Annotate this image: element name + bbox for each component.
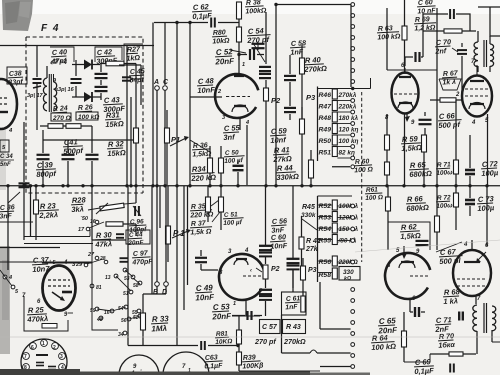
svg-text:10kΩ: 10kΩ	[212, 38, 230, 46]
svg-text:B: B	[153, 289, 158, 296]
wire vert x177	[175, 21, 178, 185]
svg-text:R53: R53	[319, 215, 332, 222]
wire C49	[201, 250, 218, 270]
svg-text:0,1µF: 0,1µF	[414, 366, 434, 375]
resistor R67 body	[440, 98, 456, 102]
label R28	[71, 195, 88, 214]
svg-text:R51: R51	[319, 150, 332, 157]
wire ladder top	[318, 78, 371, 90]
scan faint line bottom	[0, 336, 500, 338]
tube V1 grid stem	[234, 55, 244, 77]
label R56	[319, 259, 358, 266]
label R34	[190, 164, 217, 183]
svg-text:C 57: C 57	[262, 324, 278, 331]
svg-text:220kλ: 220kλ	[338, 103, 357, 111]
capacitor C60b plates	[287, 186, 300, 288]
terminal R49	[337, 133, 354, 137]
resistor lower mid a	[206, 186, 211, 222]
wire R27	[100, 64, 136, 76]
output transformer T2 left winding	[473, 305, 477, 331]
tube V0 envelope	[0, 79, 17, 129]
svg-text:680kΩ: 680kΩ	[409, 169, 432, 179]
label R62	[400, 222, 422, 241]
label C50	[224, 149, 245, 165]
svg-text:R47: R47	[319, 104, 333, 111]
label R32	[107, 139, 126, 158]
capacitor C62 plates	[188, 18, 215, 28]
capacitor C41b plates	[86, 155, 99, 159]
wire terminal rail top	[350, 5, 352, 88]
resistor R66 body	[435, 186, 440, 250]
capacitor C69 plates	[450, 364, 454, 373]
wire coil top	[47, 66, 54, 82]
capacitor stack x265 lower	[259, 290, 272, 316]
wire vert x190 lower	[187, 186, 189, 285]
svg-text:100µ: 100µ	[477, 203, 495, 213]
wire R81	[238, 316, 240, 352]
label C49	[195, 283, 216, 303]
terminal R56	[337, 260, 354, 264]
wire C57 bus	[232, 315, 262, 317]
label C61	[282, 292, 307, 315]
svg-text:1: 1	[242, 62, 245, 68]
label C43	[103, 95, 126, 114]
label 3p 17	[27, 93, 44, 99]
output transformer T1 left winding	[474, 42, 478, 67]
svg-text:3kλ: 3kλ	[71, 204, 84, 214]
terminal R50	[337, 145, 354, 149]
dashed alignment box F4	[26, 37, 143, 193]
label 9	[53, 78, 57, 84]
label R41	[272, 145, 292, 164]
svg-text:82 kη: 82 kη	[339, 150, 355, 157]
tube V4 anode bar	[62, 291, 72, 294]
svg-text:R46: R46	[319, 92, 332, 99]
label R72	[436, 194, 454, 210]
capacitor C50 plates	[233, 166, 244, 170]
tube V6 grid bar	[470, 80, 484, 82]
svg-text:4: 4	[8, 275, 12, 281]
terminal R54	[337, 227, 354, 231]
tube V0 grid dashes	[0, 98, 8, 104]
resistor R55 body	[332, 235, 337, 245]
svg-text:1: 1	[233, 301, 236, 307]
wire bottom mid2	[320, 282, 351, 329]
resistor body F4 lower a	[48, 124, 63, 129]
svg-text:500 pf: 500 pf	[438, 120, 462, 130]
tube V8 arrow	[476, 252, 486, 263]
wire lower F4	[40, 126, 92, 140]
svg-text:27k: 27k	[305, 246, 319, 253]
svg-text:C 55: C 55	[224, 123, 241, 133]
label C55	[223, 123, 242, 142]
wire C50	[237, 160, 239, 185]
capacitor C36 plates	[8, 183, 30, 203]
tube V1 grid dash	[226, 96, 250, 98]
label R58 box	[339, 267, 360, 283]
potentiometer P2 lower	[263, 265, 268, 288]
svg-text:R 43: R 43	[286, 324, 301, 331]
capacitor C38 plates	[33, 79, 42, 88]
tube V7 dash	[410, 275, 428, 277]
wire y262 left	[0, 261, 92, 263]
resistor R65 body	[422, 135, 427, 185]
svg-text:2: 2	[217, 89, 221, 95]
svg-text:R 33: R 33	[152, 314, 170, 324]
wire vert x131	[130, 97, 132, 185]
svg-text:15kΩ: 15kΩ	[107, 148, 126, 158]
wire R70	[430, 353, 476, 355]
svg-text:C 53: C 53	[213, 302, 231, 312]
wire V0 cathode down	[24, 122, 31, 240]
resistor R36 body	[208, 146, 213, 185]
resistor R81 body	[237, 330, 242, 344]
tube V8 pins	[463, 242, 489, 302]
tube V4 grid dashes	[48, 280, 70, 286]
label R36	[192, 142, 212, 159]
IF transformer F4 left winding	[43, 78, 47, 111]
svg-text:P2: P2	[271, 266, 280, 273]
label R49	[319, 127, 359, 134]
label R68	[443, 287, 462, 306]
wire C45	[119, 65, 141, 105]
svg-text:1Mλ: 1Mλ	[151, 324, 167, 334]
junctions bus left	[41, 184, 93, 187]
wire R37 diag	[211, 200, 220, 222]
svg-text:20nF: 20nF	[211, 312, 232, 322]
wire ground bus	[0, 185, 500, 187]
wire vert x127	[126, 45, 128, 185]
svg-text:81: 81	[96, 285, 102, 291]
svg-text:´50: ´50	[80, 216, 88, 222]
wire x293 to C61	[292, 270, 294, 292]
svg-text:1бкα: 1бкα	[438, 340, 456, 350]
svg-text:A: A	[153, 79, 159, 86]
svg-text:270kΩ: 270kΩ	[283, 337, 306, 346]
junctions right bus	[385, 184, 488, 187]
junction x276	[264, 184, 277, 187]
output transformer T1 core	[484, 40, 487, 67]
capacitor C40 plates	[71, 79, 82, 83]
svg-text:7: 7	[24, 354, 27, 360]
terminal A	[153, 79, 159, 90]
output transformer T2 right winding	[492, 306, 496, 331]
label R67	[439, 70, 461, 90]
terminal column bottom	[351, 288, 355, 369]
wire C53	[232, 300, 260, 316]
label P1	[173, 229, 185, 238]
label C63	[204, 354, 224, 370]
wire V8 top	[472, 186, 487, 304]
capacitor C39 plates	[37, 155, 50, 159]
terminal column top	[351, 3, 355, 84]
capacitor C43b plates	[95, 87, 108, 91]
svg-text:120 kη: 120 kη	[339, 127, 359, 134]
svg-text:2: 2	[53, 345, 56, 351]
resistor R23 body	[34, 186, 39, 240]
label C39	[36, 160, 58, 179]
terminal R51	[337, 156, 354, 160]
svg-text:56: 56	[121, 318, 127, 324]
capacitor C71 plates	[459, 312, 463, 321]
label F4 box	[41, 23, 60, 34]
scan grey band left edge	[0, 246, 10, 354]
wire T1 bottom	[478, 66, 490, 72]
svg-text:100 kΩ: 100 kΩ	[377, 33, 401, 41]
label R24	[51, 105, 71, 122]
label C69	[414, 357, 435, 375]
wire vert x153	[152, 45, 154, 185]
label C58	[290, 38, 307, 57]
label R54	[319, 225, 359, 233]
wire C67 diag	[436, 242, 462, 252]
label C45	[129, 68, 146, 84]
svg-text:10nF: 10nF	[197, 85, 215, 95]
wire C43 stack	[100, 64, 102, 100]
tube V4 arrow	[52, 292, 65, 301]
wire main top bus	[0, 45, 154, 47]
label C96	[129, 218, 148, 234]
label P2 upper	[271, 96, 281, 105]
wire C56 col	[265, 186, 267, 264]
label C48	[197, 76, 216, 95]
switch contacts 27 28 29	[75, 252, 108, 268]
wire BD below	[143, 287, 166, 301]
wire R67	[430, 92, 488, 186]
wire R62 frame	[388, 222, 430, 250]
capacitor mid plates	[416, 241, 429, 245]
tube V6 anode	[469, 103, 485, 109]
svg-text:16: 16	[90, 219, 96, 225]
svg-text:≥3p| 16: ≥3p| 16	[55, 87, 75, 93]
diode D2	[72, 92, 101, 102]
tube socket S2 pins	[130, 364, 142, 375]
tube V1 envelope	[215, 74, 258, 118]
terminal R46	[337, 99, 354, 103]
terminal R47	[337, 110, 354, 114]
wire x8 lower	[7, 186, 9, 270]
label R25	[26, 305, 49, 324]
svg-text:180 kλ: 180 kλ	[339, 114, 359, 122]
resistor R51 body	[332, 147, 337, 157]
wire vert x177 lower	[175, 184, 178, 345]
capacitor C97 plates	[120, 258, 129, 262]
tube V6 pins	[471, 118, 489, 126]
label P1 upper	[170, 135, 189, 146]
tube socket S3 circle	[163, 352, 209, 375]
label R26	[76, 104, 99, 121]
wire C72	[469, 160, 471, 185]
label R63	[377, 25, 401, 42]
svg-text:C 52: C 52	[216, 47, 234, 57]
potentiometer R28 body	[88, 203, 136, 211]
wire lower-left vert	[92, 186, 160, 294]
capacitor stack P2b	[259, 74, 271, 78]
capacitor C41a plates	[62, 155, 75, 159]
svg-text:270 Ω: 270 Ω	[52, 115, 71, 122]
tube V0 anode bar	[0, 111, 8, 113]
label R27	[124, 44, 143, 63]
svg-text:R58: R58	[319, 272, 332, 279]
label C70	[434, 37, 452, 56]
potentiometer P1 body	[166, 186, 171, 262]
pot P1 arrow	[172, 229, 191, 238]
label C36	[0, 204, 15, 220]
svg-text:10nF: 10nF	[270, 241, 288, 251]
resistor R30 body	[106, 222, 136, 226]
pot R28 arrow	[96, 203, 108, 214]
tube V6 envelope	[462, 76, 492, 117]
label R53	[319, 214, 359, 222]
wire T1 top	[478, 31, 490, 44]
wire R80 col	[238, 19, 240, 60]
label R23	[38, 201, 60, 220]
svg-text:53: 53	[124, 276, 130, 282]
svg-text:17: 17	[78, 227, 85, 233]
wire right h1	[387, 69, 437, 71]
resistor R49 body	[332, 124, 337, 134]
box under V4	[24, 296, 73, 331]
tube V3 pin6 top	[401, 63, 405, 74]
svg-text:100 µf: 100 µf	[223, 219, 243, 227]
capacitor stack P2a	[259, 67, 271, 71]
wire A C down	[157, 90, 165, 185]
svg-text:2,2kλ: 2,2kλ	[38, 210, 58, 220]
tube V8 grid bar	[464, 261, 480, 263]
label R61	[365, 186, 383, 202]
label C52	[214, 47, 236, 67]
resistor R63 body	[402, 0, 407, 186]
svg-text:kΩ: kΩ	[344, 276, 352, 282]
tube V7 dome	[399, 261, 415, 268]
svg-text:33pf: 33pf	[8, 79, 23, 87]
switch wafer numbers	[90, 275, 139, 338]
tube V6 pin7 top	[471, 59, 477, 75]
scan grey blotch top-left	[2, 0, 33, 31]
resistor R80 body	[237, 2, 242, 42]
label C41	[63, 137, 85, 156]
wire bottom mid	[282, 315, 351, 367]
scan dark band bottom edge	[0, 369, 370, 375]
resistor R39 body	[237, 352, 242, 371]
svg-text:10nF: 10nF	[195, 293, 215, 303]
label C71	[434, 315, 453, 334]
wire T2 wiring	[477, 330, 500, 354]
capacitor C59 cap plates	[284, 108, 296, 112]
resistor R50 body	[332, 135, 337, 145]
junction V0	[6, 184, 37, 187]
wire vert x186 lower	[183, 186, 185, 310]
contacts left lower	[0, 270, 19, 295]
label R59	[401, 134, 423, 153]
wire x128 lower	[127, 186, 129, 346]
label C42	[95, 47, 122, 66]
potentiometer P3 lower	[301, 258, 306, 308]
label C51	[223, 211, 244, 227]
resistor R61 body	[386, 186, 391, 250]
resistor R64 body	[402, 318, 407, 362]
svg-text:10nf: 10nf	[270, 135, 287, 145]
label C60	[417, 0, 437, 16]
junctions mid bus	[125, 184, 239, 187]
resistor R59b body	[385, 162, 390, 185]
svg-text:100 µf: 100 µf	[224, 157, 244, 165]
label R70	[438, 331, 456, 350]
label R42	[305, 238, 321, 253]
svg-text:100 kΩ: 100 kΩ	[78, 114, 99, 121]
svg-text:100ω: 100ω	[436, 169, 453, 177]
capacitor C44 plates	[116, 234, 124, 238]
wire C60 loop	[423, 14, 470, 31]
label C65	[377, 316, 399, 336]
terminal R52	[337, 204, 354, 208]
label R60	[354, 158, 374, 174]
label C59	[270, 126, 289, 145]
tube V3 anode	[398, 102, 413, 108]
label P2 lower	[250, 266, 280, 274]
wire x276	[275, 4, 277, 186]
terminal C	[163, 23, 169, 91]
svg-text:100 kΩ: 100 kΩ	[371, 342, 396, 352]
scan faint line mid	[355, 240, 500, 252]
svg-text:10KΩ: 10KΩ	[215, 338, 232, 346]
tube V6 dashes	[465, 89, 489, 96]
wire vert x190	[189, 22, 191, 185]
potentiometer P2 upper	[264, 88, 269, 101]
wire V4 area	[42, 262, 92, 264]
label C56	[271, 216, 289, 235]
capacitor C63 plates	[201, 341, 205, 350]
tube V3 grid dash	[394, 93, 417, 95]
label C40	[50, 47, 74, 66]
wire ladder1 left rail	[317, 87, 319, 162]
wire R40	[301, 45, 303, 185]
svg-text:2nf: 2nf	[434, 46, 447, 56]
label R43	[283, 320, 306, 347]
resistor R56 body	[332, 256, 337, 266]
svg-text:100Kβ: 100Kβ	[242, 362, 264, 370]
capacitor C54 plates	[252, 44, 265, 48]
svg-text:3nF: 3nF	[0, 213, 13, 221]
label R65	[409, 160, 433, 179]
label R46	[319, 91, 357, 99]
tube socket S1 circle	[21, 339, 67, 375]
tube V7 envelope	[385, 253, 430, 299]
wire C54	[253, 42, 265, 62]
tube V2 dome	[234, 259, 248, 265]
svg-text:330kΩ: 330kΩ	[276, 172, 299, 182]
terminal B	[153, 282, 159, 296]
svg-text:5nF: 5nF	[0, 162, 11, 168]
svg-text:3: 3	[60, 354, 63, 360]
wire top right bus	[274, 3, 351, 6]
label R58	[319, 272, 332, 279]
tube V1 pins	[217, 89, 249, 126]
svg-text:3nf: 3nf	[223, 132, 236, 142]
resistor R33 body	[141, 300, 146, 345]
resistor R70 body	[449, 352, 463, 356]
svg-text:0,1µF: 0,1µF	[192, 11, 212, 21]
label R48	[319, 114, 359, 122]
svg-text:47kλ: 47kλ	[94, 239, 112, 249]
svg-text:‹: ‹	[250, 268, 252, 274]
label R30	[94, 230, 114, 249]
svg-text:1,5kΩ: 1,5kΩ	[401, 143, 422, 153]
wire C52	[230, 50, 264, 56]
wire vert x136	[135, 75, 137, 128]
svg-text:330: 330	[343, 269, 354, 276]
tube V3 grid bar	[399, 76, 411, 78]
